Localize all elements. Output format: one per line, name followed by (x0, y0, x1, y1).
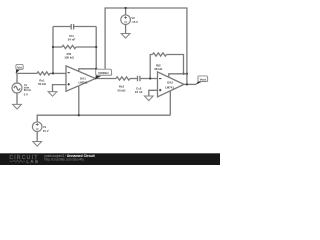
capacitor Cs2 (137, 76, 139, 82)
wire: OA1 V- pin to negative rail (78, 86, 80, 115)
wire: Rf1 row right (76, 46, 96, 48)
wire: Rs2 to Cs2 (130, 78, 137, 80)
resistor Rs2 (116, 77, 130, 80)
wire: OA1 + input to ground (53, 85, 67, 92)
svg-text:60 Hz: 60 Hz (24, 88, 32, 92)
svg-text:NODE1: NODE1 (98, 71, 109, 75)
wire: Rs1 to OA1 inverting input (50, 72, 66, 74)
wire: Vin corner to Rs1 (17, 73, 37, 83)
footer watermark bar (0, 153, 220, 165)
svg-text:5 V: 5 V (24, 93, 28, 97)
op-amp OA1 LM741 (66, 66, 96, 91)
wire: OA2 V+ pin stub and horizontal (169, 74, 187, 78)
svg-text:68 kΩ: 68 kΩ (154, 67, 163, 71)
svg-text:OA2: OA2 (167, 81, 173, 85)
wire: Vs to ground (16, 93, 18, 104)
wire: V2 to ground (125, 25, 127, 34)
ground (OA2 +) (144, 96, 153, 101)
wire: Rf2 right and down to V+ line (167, 55, 187, 74)
wire: top rail (105, 8, 187, 84)
svg-text:15 V: 15 V (43, 129, 49, 133)
svg-text:50 kΩ: 50 kΩ (38, 82, 47, 86)
wire: Cs2 to OA2 inverting input (140, 78, 157, 80)
ground (OA1 +) (48, 92, 57, 97)
wire: OA1 V+ pin stub and horizontal (79, 69, 96, 72)
resistor Rs1 (37, 72, 50, 75)
wire: negative rail (37, 115, 170, 122)
wire: Rf2 left vertical (150, 55, 152, 79)
wire: Rf1 row left (53, 46, 62, 48)
svg-text:24 nF: 24 nF (68, 38, 76, 42)
svg-text:24 nF: 24 nF (135, 90, 143, 94)
resistor Rf1 (62, 45, 76, 48)
svg-text:100 kΩ: 100 kΩ (64, 56, 74, 60)
svg-text:50 kΩ: 50 kΩ (118, 88, 127, 92)
ground (V1) (33, 142, 42, 147)
op-amp OA2 LM741 (158, 72, 185, 97)
svg-text:Vin: Vin (17, 66, 22, 70)
wire: OA1 output to Rs2 (96, 78, 117, 80)
wire: Cf1 row right (74, 26, 97, 28)
voltage source V1 (32, 122, 42, 132)
wire: OA2 output (184, 83, 196, 85)
wire: V2 drop from top rail (125, 8, 127, 15)
ground (V2) (121, 34, 130, 39)
node flag Vout (196, 81, 203, 84)
wire: feedback right vertical to output node (95, 27, 97, 79)
wire: Cf1 row left (53, 26, 71, 28)
resistor Rf2 (153, 53, 167, 56)
voltage source Vs (12, 83, 22, 93)
svg-text:V2: V2 (131, 16, 135, 20)
svg-text:V1: V1 (43, 125, 47, 129)
svg-text:LM741: LM741 (165, 85, 174, 89)
svg-text:LAB: LAB (27, 159, 39, 164)
svg-text:Vout: Vout (200, 77, 206, 81)
wire: feedback left vertical (52, 27, 54, 74)
node flag Vin (16, 69, 21, 74)
svg-text:http://circuitlab.com/c6uv4ty: http://circuitlab.com/c6uv4ty (45, 157, 85, 161)
wire: OA2 + input to ground (149, 90, 158, 96)
wire: OA2 V- pin to negative rail (169, 91, 171, 116)
svg-text:-15 V: -15 V (131, 20, 138, 24)
capacitor Cf1 (70, 24, 72, 30)
wire: V1 to ground (36, 132, 38, 142)
junction: feedback verticals (52, 46, 54, 48)
svg-text:CIRCUIT: CIRCUIT (9, 155, 38, 161)
svg-text:LM741: LM741 (79, 80, 88, 84)
node flag NODE1 (95, 75, 102, 79)
ground (Vs) (13, 104, 22, 109)
voltage source V2 (121, 15, 131, 25)
